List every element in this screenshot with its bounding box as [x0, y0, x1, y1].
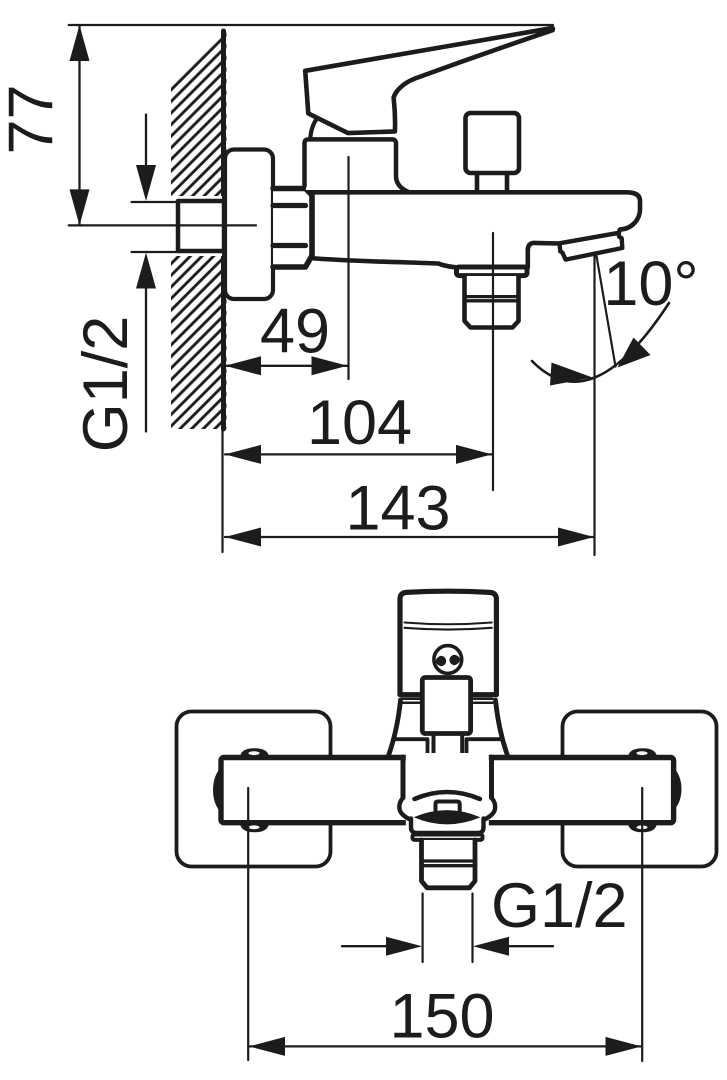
- dim 49 extension line: [347, 157, 349, 379]
- svg-text:150: 150: [389, 982, 494, 1052]
- right wall plate: [563, 712, 717, 867]
- hose outlet pipe front: [422, 840, 476, 888]
- arc arrowhead left: [550, 363, 593, 386]
- left supply bump above bar: [240, 748, 269, 758]
- knob stem front: [434, 734, 463, 757]
- wall flange escutcheon: [225, 150, 273, 300]
- pipe top extension line: [132, 201, 179, 203]
- cartridge housing: [306, 141, 394, 190]
- svg-text:104: 104: [307, 388, 412, 458]
- supply pipe G1/2 through wall: [178, 201, 224, 251]
- svg-text:49: 49: [260, 297, 330, 367]
- handle blade lines front: [405, 623, 492, 630]
- dim 143 line: [225, 536, 594, 538]
- diverter tab: [436, 802, 460, 811]
- lever handle front view: [400, 591, 496, 695]
- diverter knob lens: [414, 810, 481, 824]
- diverter housing white mask: [406, 753, 489, 826]
- shower outlet flange under body: [457, 267, 528, 276]
- pipe extension lines bottom: [423, 894, 473, 963]
- body bar front view: [221, 758, 674, 823]
- bar right end cap: [672, 766, 682, 813]
- 77 arrow up: [70, 25, 90, 61]
- 150 extension lines: [248, 788, 642, 1061]
- shower outlet pipe: [465, 276, 519, 328]
- 77 arrow down: [70, 189, 90, 225]
- dimension 77 line: [78, 25, 80, 225]
- arc arrowhead right: [618, 338, 651, 368]
- right supply bump above bar: [628, 748, 657, 758]
- wall extension line lower: [221, 430, 223, 552]
- G1/2 top arrow upper: [145, 115, 147, 169]
- white gap around supply pipe in wall: [164, 196, 222, 256]
- dim 104 line: [225, 453, 492, 455]
- dim 49 line: [225, 365, 348, 367]
- diverter knob stem: [477, 174, 507, 192]
- diverter collar sides: [399, 798, 495, 819]
- svg-text:G1/2: G1/2: [71, 316, 141, 453]
- svg-text:10°: 10°: [603, 249, 698, 319]
- temperature indicator icon: [434, 646, 462, 674]
- handle column flare: [389, 700, 508, 756]
- spout extension line: [593, 255, 595, 555]
- dim 150 line: [249, 1045, 642, 1047]
- diverter knob side view: [466, 113, 520, 173]
- shower pipe thread groove: [465, 297, 518, 301]
- wall face line: [221, 31, 226, 429]
- left supply bump below bar: [240, 822, 269, 832]
- horizontal centerline: [69, 224, 256, 226]
- right supply bump below bar: [628, 822, 657, 832]
- nut facet lines: [273, 206, 306, 246]
- 10 degree arc: [532, 303, 669, 382]
- handle base corner arc: [310, 119, 316, 137]
- lever handle side view: [305, 28, 553, 133]
- diverter knob front view: [422, 678, 470, 734]
- dim 104 extension line: [492, 233, 494, 490]
- body outline side view: [310, 192, 640, 267]
- hose pipe grooves: [422, 861, 475, 866]
- G1/2 bottom left arrow: [342, 945, 388, 947]
- wall hatching: [160, 20, 240, 440]
- bump screw slots: [248, 751, 259, 755]
- bar left end cap: [213, 766, 223, 815]
- svg-text:G1/2: G1/2: [491, 871, 628, 941]
- 10 degree slanted line: [597, 256, 616, 367]
- top extension line: [69, 24, 553, 26]
- svg-text:77: 77: [0, 84, 67, 154]
- G1/2 top arrow lower: [145, 288, 147, 432]
- pipe bottom extension line: [132, 251, 179, 253]
- diverter neck: [403, 757, 492, 798]
- flare shoulder step: [396, 739, 501, 756]
- diverter rim: [413, 835, 483, 840]
- left wall plate: [177, 712, 331, 867]
- escutcheon ticks below handle: [402, 699, 493, 703]
- spout aerator box: [560, 233, 623, 260]
- hex connection nut: [273, 189, 312, 268]
- diverter cup: [411, 819, 484, 834]
- G1/2 bottom right arrow: [507, 945, 553, 947]
- svg-text:143: 143: [345, 474, 450, 544]
- diverter dome: [415, 792, 480, 799]
